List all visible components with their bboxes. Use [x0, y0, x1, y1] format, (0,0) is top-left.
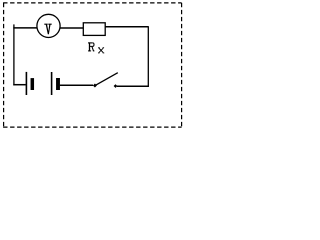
wire: top-left horizontal to voltmeter	[13, 27, 36, 29]
switch S1 arm	[95, 73, 118, 86]
wire: right vertical	[147, 26, 149, 87]
label Rx	[88, 42, 104, 53]
battery cell 2 long plate (+)	[51, 72, 53, 95]
wire: bottom-right horizontal to switch	[117, 85, 149, 87]
wire: battery to switch	[60, 84, 93, 86]
wire: bottom-left horizontal from left vertical to battery	[13, 84, 25, 86]
switch S1 left contact dot	[93, 84, 97, 88]
voltmeter U1 circle	[37, 14, 60, 37]
wire: left vertical with top tick	[13, 24, 15, 85]
wire: voltmeter to resistor	[60, 27, 83, 29]
battery cell 2 short plate (-)	[56, 78, 60, 90]
voltmeter label V	[44, 24, 51, 35]
battery cell 1 long plate (+)	[25, 72, 27, 95]
resistor Rx box	[83, 23, 105, 36]
wire: resistor to top-right corner	[105, 26, 148, 28]
dashed frame border	[3, 3, 182, 127]
switch S1 right contact dot	[114, 84, 118, 88]
battery cell 1 short plate (-)	[31, 78, 35, 90]
